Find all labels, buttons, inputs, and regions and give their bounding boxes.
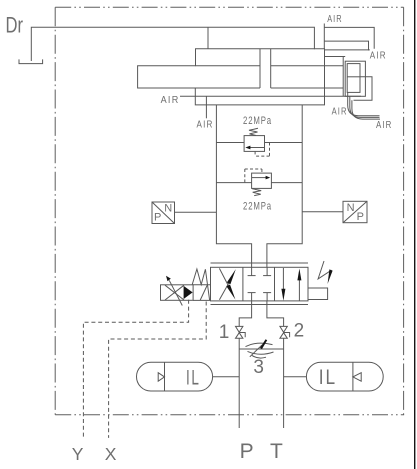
throttle valve 3 xyxy=(239,339,283,358)
lightning bolt symbol xyxy=(318,261,333,284)
wire: dashed pilot drain Y xyxy=(83,300,188,438)
svg-text:N: N xyxy=(164,202,172,214)
svg-text:N: N xyxy=(347,202,355,214)
cylinder C1 rod stage rectangle xyxy=(138,66,260,88)
DV1 position a crossed arrows xyxy=(219,268,235,299)
DV1 centre position blocked ports xyxy=(248,267,272,301)
wire: dashed pilot drain X xyxy=(109,302,207,438)
wire: AIR top pipe down to cylinder xyxy=(323,24,325,49)
wire: pipe to AIR right label xyxy=(324,41,368,50)
wire: QC1 to P line xyxy=(213,376,240,378)
svg-text:Dr: Dr xyxy=(6,13,24,38)
wire: cylinder end bleed pipes to AIR xyxy=(348,92,380,119)
quick coupling QC2 (right) xyxy=(306,362,383,391)
svg-text:Y: Y xyxy=(72,444,84,464)
wire: vertical from drain line to cylinder top xyxy=(207,27,209,48)
wire: QC2 to T line xyxy=(284,376,307,378)
wire: solenoid to valve link bottom xyxy=(193,299,210,301)
svg-text:AIR: AIR xyxy=(327,13,343,25)
enclosure border (dash-dot manifold boundary) xyxy=(55,7,404,415)
svg-text:P: P xyxy=(357,211,364,223)
svg-text:AIR: AIR xyxy=(376,119,393,131)
test point gauge left xyxy=(152,202,175,224)
relief valve RV1 xyxy=(244,128,269,156)
wire: P line xyxy=(238,338,240,428)
svg-text:IL: IL xyxy=(319,366,338,389)
svg-text:P: P xyxy=(240,440,254,463)
svg-text:X: X xyxy=(105,444,117,464)
cylinder C1 right end stage steps xyxy=(324,57,372,101)
wire: solenoid to valve link top xyxy=(193,284,210,286)
tank (drain) symbol xyxy=(19,59,43,63)
svg-text:T: T xyxy=(270,440,283,463)
svg-text:1: 1 xyxy=(219,322,230,343)
wire: left test point line xyxy=(175,211,217,213)
wire: top AIR rectangle branch xyxy=(324,27,374,48)
screenshot right edge artifact xyxy=(414,0,415,469)
electrical actuator box right xyxy=(308,288,328,300)
svg-text:2: 2 xyxy=(294,321,305,342)
relief valve RV2 xyxy=(245,169,272,196)
quick coupling QC1 (left) xyxy=(137,362,213,391)
wire: relief cross line B xyxy=(216,182,302,184)
svg-text:AIR: AIR xyxy=(161,94,180,106)
directional valve DV1 body xyxy=(211,267,309,301)
svg-text:AIR: AIR xyxy=(197,118,214,130)
svg-text:AIR: AIR xyxy=(332,106,348,118)
relief manifold block outline xyxy=(216,105,302,267)
test point gauge right xyxy=(343,201,367,223)
wire: drop to AIR lower-left label xyxy=(205,96,207,118)
wire: right test point line xyxy=(302,211,343,213)
wire: T line xyxy=(283,338,285,428)
svg-text:3: 3 xyxy=(253,357,264,378)
svg-text:P: P xyxy=(154,212,161,224)
wire: valve A port to P line jog xyxy=(239,301,251,327)
svg-text:IL: IL xyxy=(186,367,201,390)
svg-text:AIR: AIR xyxy=(370,50,387,62)
shut-off valve 1 xyxy=(236,326,246,338)
wire: relief cross line A xyxy=(216,142,302,144)
directional valve DV1 rails xyxy=(211,263,309,305)
cylinder C1 barrel outline xyxy=(195,49,369,105)
wire: lower stage line / AIR left port pipe xyxy=(180,95,361,97)
shut-off valve 2 xyxy=(280,326,290,338)
DV1 position b arrows xyxy=(281,268,301,301)
svg-text:22MPa: 22MPa xyxy=(243,201,272,213)
wire: valve B port to T line jog xyxy=(267,301,284,327)
wire: drain line Dr xyxy=(31,27,314,61)
svg-text:22MPa: 22MPa xyxy=(243,115,272,127)
cylinder C1 piston divider lines xyxy=(260,49,271,89)
proportional solenoid S1 xyxy=(161,276,194,306)
spring DV1 xyxy=(192,269,209,300)
